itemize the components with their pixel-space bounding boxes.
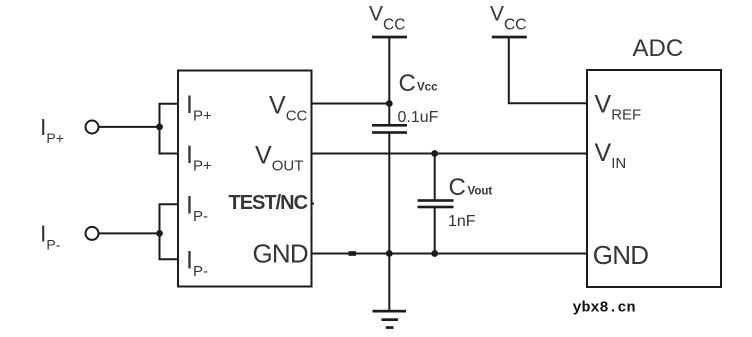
node junction VCC bbox=[386, 100, 393, 107]
svg-text:ADC: ADC bbox=[633, 35, 684, 62]
capacitor C_Vcc plates bbox=[372, 124, 407, 134]
ADC U2 body bbox=[587, 70, 721, 287]
supply VCC symbol 2 bbox=[490, 3, 527, 39]
svg-text:ybx8.cn: ybx8.cn bbox=[573, 300, 636, 317]
svg-text:Vcc: Vcc bbox=[417, 82, 438, 94]
terminal IP- circle bbox=[86, 227, 99, 240]
IC U1 current-sensor body bbox=[178, 71, 312, 287]
polarity dash on GND wire bbox=[349, 251, 357, 256]
wire U1.VOUT to ADC.VIN bbox=[312, 153, 588, 155]
capacitor C_Vout plates bbox=[418, 199, 454, 208]
svg-text:C: C bbox=[449, 174, 466, 201]
node junction GND/C_Vout bbox=[431, 250, 438, 257]
wire VCC stem / main vertical (upper segment, to C_Vcc top plate) bbox=[388, 38, 390, 125]
svg-text:GND: GND bbox=[593, 240, 648, 270]
pin stub TEST/NC bbox=[312, 203, 315, 205]
node junction IP+ bracket bbox=[156, 124, 163, 131]
node junction GND/main vertical bbox=[386, 250, 393, 257]
wire terminal IP- to bracket bbox=[99, 232, 160, 234]
node junction VOUT/C_Vout bbox=[431, 150, 438, 157]
svg-text:0.1uF: 0.1uF bbox=[398, 109, 439, 126]
svg-text:C: C bbox=[399, 70, 416, 97]
supply VCC symbol 1 bbox=[369, 3, 407, 39]
node junction IP- bracket bbox=[156, 230, 163, 237]
ground symbol bbox=[373, 310, 407, 329]
terminal IP+ circle bbox=[86, 121, 99, 134]
svg-text:TEST/NC: TEST/NC bbox=[229, 192, 308, 214]
wire U1.GND to ADC.GND bbox=[312, 253, 588, 255]
svg-text:1nF: 1nF bbox=[448, 213, 476, 230]
wire C_Vout vertical lower bbox=[434, 207, 436, 254]
wire IP- bracket bbox=[160, 204, 179, 259]
wire VCC2 stem bbox=[509, 38, 587, 103]
svg-text:GND: GND bbox=[253, 238, 308, 268]
wire terminal IP+ to bracket bbox=[99, 126, 160, 128]
wire main vertical (C_Vcc bottom plate down to ground) bbox=[388, 133, 390, 311]
wire C_Vout vertical upper bbox=[434, 154, 436, 200]
wire U1.VCC to vertical bbox=[312, 103, 390, 105]
svg-text:Vout: Vout bbox=[468, 186, 493, 198]
wire IP+ bracket bbox=[160, 104, 179, 154]
